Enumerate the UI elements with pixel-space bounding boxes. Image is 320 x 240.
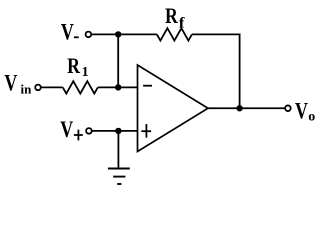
inverting input marker (minus): [143, 85, 152, 87]
resistor R1: [63, 81, 98, 93]
wire: node C down to ground: [117, 131, 119, 169]
svg-text:o: o: [308, 109, 315, 124]
wire: V+ terminal to op-amp non-inverting input: [92, 130, 137, 132]
svg-text:V: V: [60, 118, 73, 143]
svg-text:1: 1: [82, 65, 89, 80]
resistor Rf: [157, 28, 192, 40]
terminal Vo: [285, 105, 291, 111]
wire: Rf to right corner down to output node: [192, 34, 240, 108]
junction dot node C (non-inverting input node): [115, 128, 121, 134]
svg-text:V: V: [4, 72, 17, 97]
junction dot node A (feedback tap, top): [115, 31, 121, 37]
svg-text:V: V: [61, 21, 74, 46]
svg-text:in: in: [21, 81, 33, 96]
wire: op-amp output to Vo terminal: [208, 107, 284, 109]
wire top: V- terminal to Rf: [92, 33, 157, 35]
wire: Vin terminal to R1: [42, 86, 63, 88]
svg-text:f: f: [179, 15, 185, 31]
ground: [108, 168, 130, 170]
terminal Vin: [35, 85, 41, 91]
op-amp U1: [138, 65, 209, 152]
svg-text:V: V: [295, 99, 308, 124]
wire: vertical from node A to inverting input line: [117, 34, 119, 87]
junction dot node B (inverting input node): [115, 84, 121, 90]
svg-text:R: R: [67, 54, 80, 78]
wire: R1 to op-amp inverting input: [98, 86, 138, 88]
svg-text:R: R: [165, 4, 178, 28]
terminal V+: [86, 128, 92, 134]
terminal V-: [86, 32, 92, 38]
junction dot node D (output/feedback junction): [236, 105, 242, 111]
non-inverting input marker (plus): [141, 130, 151, 132]
